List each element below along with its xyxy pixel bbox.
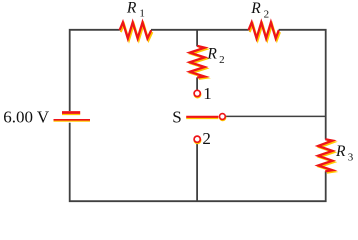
svg-text:1: 1 [203,84,212,103]
terminal node 2 [194,136,201,143]
wire terminal 2 to bottom wire [196,143,198,201]
svg-text:R: R [250,0,261,17]
label R3 [335,143,354,163]
wire middle branch lower (R2 middle to terminal 1) [196,77,198,90]
label 6.00 V [3,107,50,126]
label R1 [126,0,145,20]
wire battery bottom, bottom wire, right wire lower (to R3 bottom) [70,123,326,201]
label 1 [203,84,212,103]
wire middle branch upper (top wire junction to R2 middle) [196,30,198,47]
switch S pivot [220,114,226,121]
resistor R2 (top) [249,22,281,40]
resistor R2 (middle branch) [190,46,207,79]
svg-text:3: 3 [348,151,354,163]
svg-text:R: R [126,0,137,16]
terminal node 1 [194,90,201,97]
label 2 [202,129,211,148]
svg-text:S: S [172,107,181,126]
svg-text:1: 1 [139,8,145,20]
svg-text:2: 2 [219,54,225,66]
svg-text:6.00 V: 6.00 V [3,107,50,126]
svg-text:2: 2 [202,129,211,148]
resistor R1 [120,22,153,40]
svg-text:2: 2 [264,8,270,20]
switch S blade [186,117,218,119]
wire top middle segment (R1 to R2 top) [151,29,249,31]
wire switch pivot to right wire [226,115,326,117]
svg-text:R: R [206,46,217,63]
label S [172,107,181,126]
label R2 (top) [250,0,269,20]
battery 6.00 V [54,113,91,122]
resistor R3 [318,139,334,173]
label R2 (middle) [206,46,224,66]
svg-text:R: R [335,143,346,160]
wire top-left segment (battery top to R1) [70,30,120,111]
wire top-right corner and right wire upper (to R3 top) [279,30,326,140]
